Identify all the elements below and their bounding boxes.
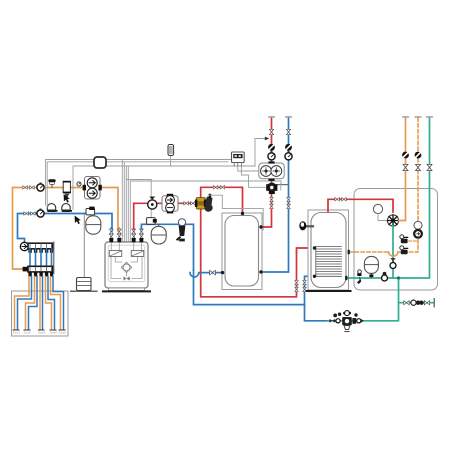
cap cold water: [426, 116, 433, 117]
valve pair on orange line: [23, 186, 34, 190]
wire: blue tee to buffer bottom with hop: [190, 270, 305, 305]
junction cold line: [397, 276, 400, 279]
junction buffer top: [241, 212, 244, 215]
pump group on orange circuit: [83, 177, 102, 200]
wire: controller drops: [225, 166, 267, 187]
backflow preventer on spur: [411, 300, 424, 305]
condensate drain line: [83, 215, 85, 277]
air-dirt separator on return: [176, 219, 186, 242]
manifold flow meters: [28, 249, 53, 253]
three-way valve on HP flow: [266, 183, 288, 195]
air vent on orange line: [48, 179, 55, 187]
circulation mini vessel: [414, 221, 422, 229]
DHW coil junction top: [313, 246, 316, 249]
wire: cold below mixing valve: [392, 226, 394, 278]
ball valve below mixer: [390, 259, 396, 269]
floor loop 4: [46, 277, 55, 330]
condensate container: [71, 278, 98, 292]
boiler check valve: [124, 276, 131, 280]
cap heat pump return: [285, 116, 292, 117]
valve on HP return lower: [287, 197, 291, 208]
valve pair blue DHW feed: [303, 280, 307, 291]
circulation pump: [413, 229, 423, 239]
diverter valve actuator: [205, 194, 213, 212]
manifold return bar: [28, 266, 53, 272]
manifold loop caps: [28, 272, 53, 277]
wire: DHW hot outlet to mixing valve: [328, 199, 393, 212]
manifold isolation valve: [23, 267, 28, 272]
circulation branch tap 1: [400, 235, 418, 243]
sensor arrow to flow pipe: [255, 137, 269, 166]
DHW coil junction bottom: [313, 275, 316, 278]
ball valve on HP return: [285, 144, 292, 151]
thermo actuator zone valve 2: [62, 204, 72, 212]
cap heat pump flow: [268, 116, 275, 117]
wire: cold water main line: [346, 118, 430, 279]
valve pair before diverter: [184, 202, 195, 206]
boiler heat exchanger left: [109, 251, 121, 257]
brass diverter valve: [195, 198, 206, 209]
wire: cold feed down to filling group: [305, 305, 329, 321]
wire: boiler flow red to diverter valve: [134, 203, 197, 229]
buffer tank vessel: [225, 216, 259, 287]
floor heating zone box: [12, 291, 69, 336]
valve on buffer bottom blue: [210, 270, 216, 275]
ball valve on circulation riser: [415, 152, 422, 159]
dirt filter on orange riser: [63, 181, 71, 198]
DHW tank vessel: [311, 213, 346, 288]
manifold supply bar: [28, 242, 54, 274]
floor loop labels: [13, 331, 67, 335]
system controller: [232, 152, 245, 166]
valve below three-way: [270, 197, 274, 208]
expansion vessel on boiler return: [151, 225, 166, 245]
valve pair on hot outlet: [335, 198, 346, 202]
thermo actuator zone valve 1: [47, 204, 57, 212]
gauge on HP return: [285, 151, 292, 160]
expansion vessel bracket on return: [147, 218, 157, 225]
thermostatic mixing valve: [387, 215, 398, 226]
boiler casing: [103, 242, 150, 291]
wire: bus lower to sensor arrow: [73, 156, 255, 210]
vent circle on orange line: [77, 182, 81, 186]
wire: DHW coil feed top: [297, 248, 315, 252]
heat pump twin circulation pump: [259, 161, 284, 180]
valve on mains spur: [404, 301, 409, 305]
expansion vessel on blue circuit: [86, 216, 101, 234]
boiler internal piping: [111, 242, 142, 279]
svg-text:Zone3: Zone3: [38, 331, 46, 335]
boiler connection stub 2: [117, 228, 121, 242]
DHW tank thermometer: [299, 221, 313, 230]
gauge on HP flow: [268, 151, 275, 160]
ball valve on HP flow: [268, 144, 275, 151]
boiler heat exchanger right: [131, 251, 143, 257]
boiler internal pump: [121, 262, 131, 272]
wire: boiler cable drops: [122, 160, 128, 242]
safety group fitting on blue line: [86, 207, 95, 215]
wire: bus upper: [46, 160, 232, 206]
wire: blue up to DHW coil bottom: [305, 276, 315, 304]
ball valve on tempered riser: [402, 152, 409, 159]
valve on spur right: [424, 301, 429, 305]
DHW heating coil: [316, 247, 342, 277]
svg-text:Zone4: Zone4: [50, 331, 58, 335]
DHW tank base: [306, 290, 351, 292]
manifold pump: [20, 242, 28, 250]
buffer sensor cable: [209, 195, 263, 230]
mains spur end cap: [433, 299, 435, 307]
valve pair on blue line: [24, 212, 35, 216]
cursor icon 1: [64, 194, 70, 203]
cold inlet nib: [345, 276, 347, 280]
wire: DHW circulation dashed: [350, 118, 419, 253]
floor loop end ticks: [13, 329, 65, 331]
wire: diverter down to DHW coil: [201, 209, 297, 297]
boiler inner liner: [108, 245, 145, 282]
wire: boiler return blue line: [141, 224, 193, 270]
wire: actuator drop: [126, 180, 151, 219]
wire: heat pump return riser: [262, 118, 289, 273]
junction buffer right red: [259, 225, 262, 228]
floor loop 2: [26, 277, 38, 330]
junction box on bus: [94, 157, 106, 168]
junction buffer right blue: [259, 270, 262, 273]
twin pump on boiler flow: [162, 194, 178, 214]
flow temperature sensor: [168, 145, 174, 156]
technical room enclosure: [354, 189, 438, 291]
circulation outlet nib: [348, 250, 350, 254]
gauge on orange line: [37, 183, 44, 192]
wire: tempered water out riser: [399, 118, 406, 221]
floor loop 1: [15, 277, 32, 330]
svg-text:Zone5: Zone5: [59, 331, 67, 335]
wire: boiler to diverter valve cable: [130, 181, 281, 242]
wire: mains spur: [399, 302, 434, 304]
wire: cold feed riser down: [364, 278, 399, 321]
boiler connection stub 4: [139, 228, 143, 242]
boiler connection stub 3: [132, 228, 136, 242]
svg-text:Zone1: Zone1: [13, 331, 21, 335]
wire: heat pump flow riser: [262, 118, 272, 228]
valve on cold riser: [427, 164, 432, 170]
boiler connection stub 1: [109, 228, 113, 242]
filling group assembly: [328, 311, 364, 332]
valve on tempered riser: [403, 164, 408, 170]
DHW expansion vessel: [364, 256, 378, 278]
circulation branch tap 2: [400, 246, 408, 254]
wire: orange circuit supply line: [13, 188, 119, 270]
DHW tank enclosure: [308, 210, 349, 290]
gauge on blue line: [37, 209, 44, 218]
ball valve on cold line: [382, 272, 388, 281]
cap tempered water: [402, 116, 409, 117]
wire: blue circuit return line: [18, 214, 113, 243]
junction buffer left blue: [221, 271, 224, 274]
wire: diverter bridge to buffer top: [201, 187, 243, 213]
valve on HP return: [286, 129, 290, 134]
circulation hop over: [389, 252, 399, 256]
cursor icon 2: [75, 216, 81, 225]
wire: bus second: [47, 162, 228, 207]
valve on HP flow: [269, 129, 273, 134]
valve on circulation riser: [416, 164, 421, 170]
circulation pump on boiler flow: [148, 197, 157, 210]
svg-text:Zone2: Zone2: [24, 331, 32, 335]
mixing valve sensor bulb: [373, 204, 386, 220]
floor loop 3: [40, 277, 43, 330]
drain valve on cold line: [357, 270, 362, 284]
buffer tank enclosure: [222, 213, 262, 290]
valve pair on bridge line: [213, 186, 224, 190]
manifold loop pipes between bars: [30, 249, 52, 267]
cap circulation: [414, 116, 421, 117]
valve pair red DHW feed: [295, 280, 299, 291]
floor loop 5: [51, 277, 64, 330]
